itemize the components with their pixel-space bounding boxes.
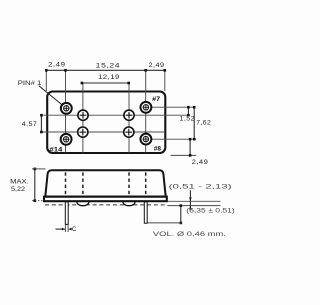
inner pad circle row1 right <box>124 110 134 120</box>
svg-text:4,57: 4,57 <box>22 121 38 128</box>
pin #8 top view <box>140 134 151 145</box>
svg-text:VOL. Ø 0,46 mm.: VOL. Ø 0,46 mm. <box>153 232 227 238</box>
inner pad circle row1 left <box>78 110 88 120</box>
hidden pin dashed line col 1 <box>65 172 67 195</box>
label 5,22 <box>11 186 25 193</box>
svg-text:#8: #8 <box>154 146 162 153</box>
wire vertical extension line pin column 7 <box>145 70 147 152</box>
can body side view <box>45 170 165 196</box>
svg-text:MAX.: MAX. <box>10 179 29 186</box>
wire horizontal extension line pin 8 row <box>146 138 196 140</box>
dimension line 1,52 vertical right <box>187 106 190 117</box>
label 2,49 top left <box>48 61 66 68</box>
label pin number #14 <box>49 146 63 153</box>
label pin number #7 <box>152 96 161 103</box>
wire vertical extension line inner column left <box>82 83 84 153</box>
wire vertical extension line package left edge <box>45 70 47 91</box>
wire horizontal center line inner row 2 <box>41 131 165 133</box>
label 4,57 <box>22 121 38 128</box>
pin #14 top view <box>61 134 72 145</box>
wire vertical extension line package right edge <box>164 70 166 91</box>
hidden pin dashed line inner col left <box>82 172 84 195</box>
dimension line 12,19 horizontal <box>81 82 130 85</box>
pin #1 top view <box>61 103 72 114</box>
dimension line 4,57 vertical left <box>40 114 43 133</box>
dimension line 7,62 vertical right <box>193 106 196 141</box>
left lead side view <box>65 202 68 225</box>
wire horizontal extension line pin 7 row <box>146 106 194 108</box>
extension line flange bottom plane right <box>167 200 220 202</box>
svg-text:#7: #7 <box>152 96 161 103</box>
dimension line 2,49 vertical bottom right <box>189 138 192 157</box>
dimension C lead width <box>56 224 72 232</box>
label 7,62 <box>196 120 211 127</box>
inner pad circle row2 left <box>78 127 88 137</box>
svg-text:PIN# 1: PIN# 1 <box>18 80 42 87</box>
svg-text:(0,51 - 2,13): (0,51 - 2,13) <box>169 185 232 191</box>
label 15,24 <box>96 62 121 69</box>
wire vertical extension line inner column right <box>128 83 130 153</box>
leader line PIN# 1 <box>39 86 66 108</box>
label (0,51 - 2,13) <box>169 185 232 191</box>
extension line standoff plane right <box>167 205 220 207</box>
standoff bump right <box>123 202 136 206</box>
label 1,52 <box>180 115 196 122</box>
svg-text:(6,35 ± 0,51): (6,35 ± 0,51) <box>186 208 235 214</box>
package outline top view <box>47 92 165 154</box>
standoff bump left <box>77 202 90 206</box>
label 2,49 top right <box>149 62 165 69</box>
dimension line top horizontal <box>45 69 166 72</box>
hidden pin dashed line col 7 <box>145 172 147 195</box>
inner pad circle row2 right <box>124 127 134 137</box>
label MAX <box>10 179 29 186</box>
svg-text:C: C <box>72 226 77 233</box>
label PIN# 1 <box>18 80 42 87</box>
wire horizontal extension line package bottom edge <box>171 154 197 156</box>
svg-text:2,49: 2,49 <box>192 159 209 166</box>
hidden pin dashed line inner col right <box>128 172 130 195</box>
pin #7 top view <box>140 102 151 113</box>
wire vertical extension line pin column 1 <box>65 70 67 152</box>
base flange side view <box>44 197 167 202</box>
svg-text:7,62: 7,62 <box>196 120 211 127</box>
label VOL diameter <box>153 232 227 238</box>
dimension arrows 0,51-2,13 <box>189 190 192 209</box>
svg-text:5,22: 5,22 <box>11 186 25 193</box>
svg-text:2,49: 2,49 <box>149 62 165 69</box>
wire horizontal center line inner row 1 <box>41 114 189 116</box>
dimension MAX 5,22 vertical <box>32 168 46 202</box>
svg-text:#14: #14 <box>49 146 63 153</box>
svg-text:15,24: 15,24 <box>96 62 121 69</box>
label 12,19 <box>98 74 120 81</box>
svg-text:12,19: 12,19 <box>98 74 120 81</box>
standoff dashed line <box>45 204 166 206</box>
dimension lead length vertical <box>148 204 183 224</box>
label pin number #8 <box>154 146 162 153</box>
right lead side view <box>144 202 147 223</box>
label C <box>72 226 77 233</box>
label 2,49 bottom right <box>192 159 209 166</box>
svg-text:1,52: 1,52 <box>180 115 196 122</box>
svg-text:2,49: 2,49 <box>48 61 66 68</box>
label (6,35 +- 0,51) <box>186 208 235 214</box>
